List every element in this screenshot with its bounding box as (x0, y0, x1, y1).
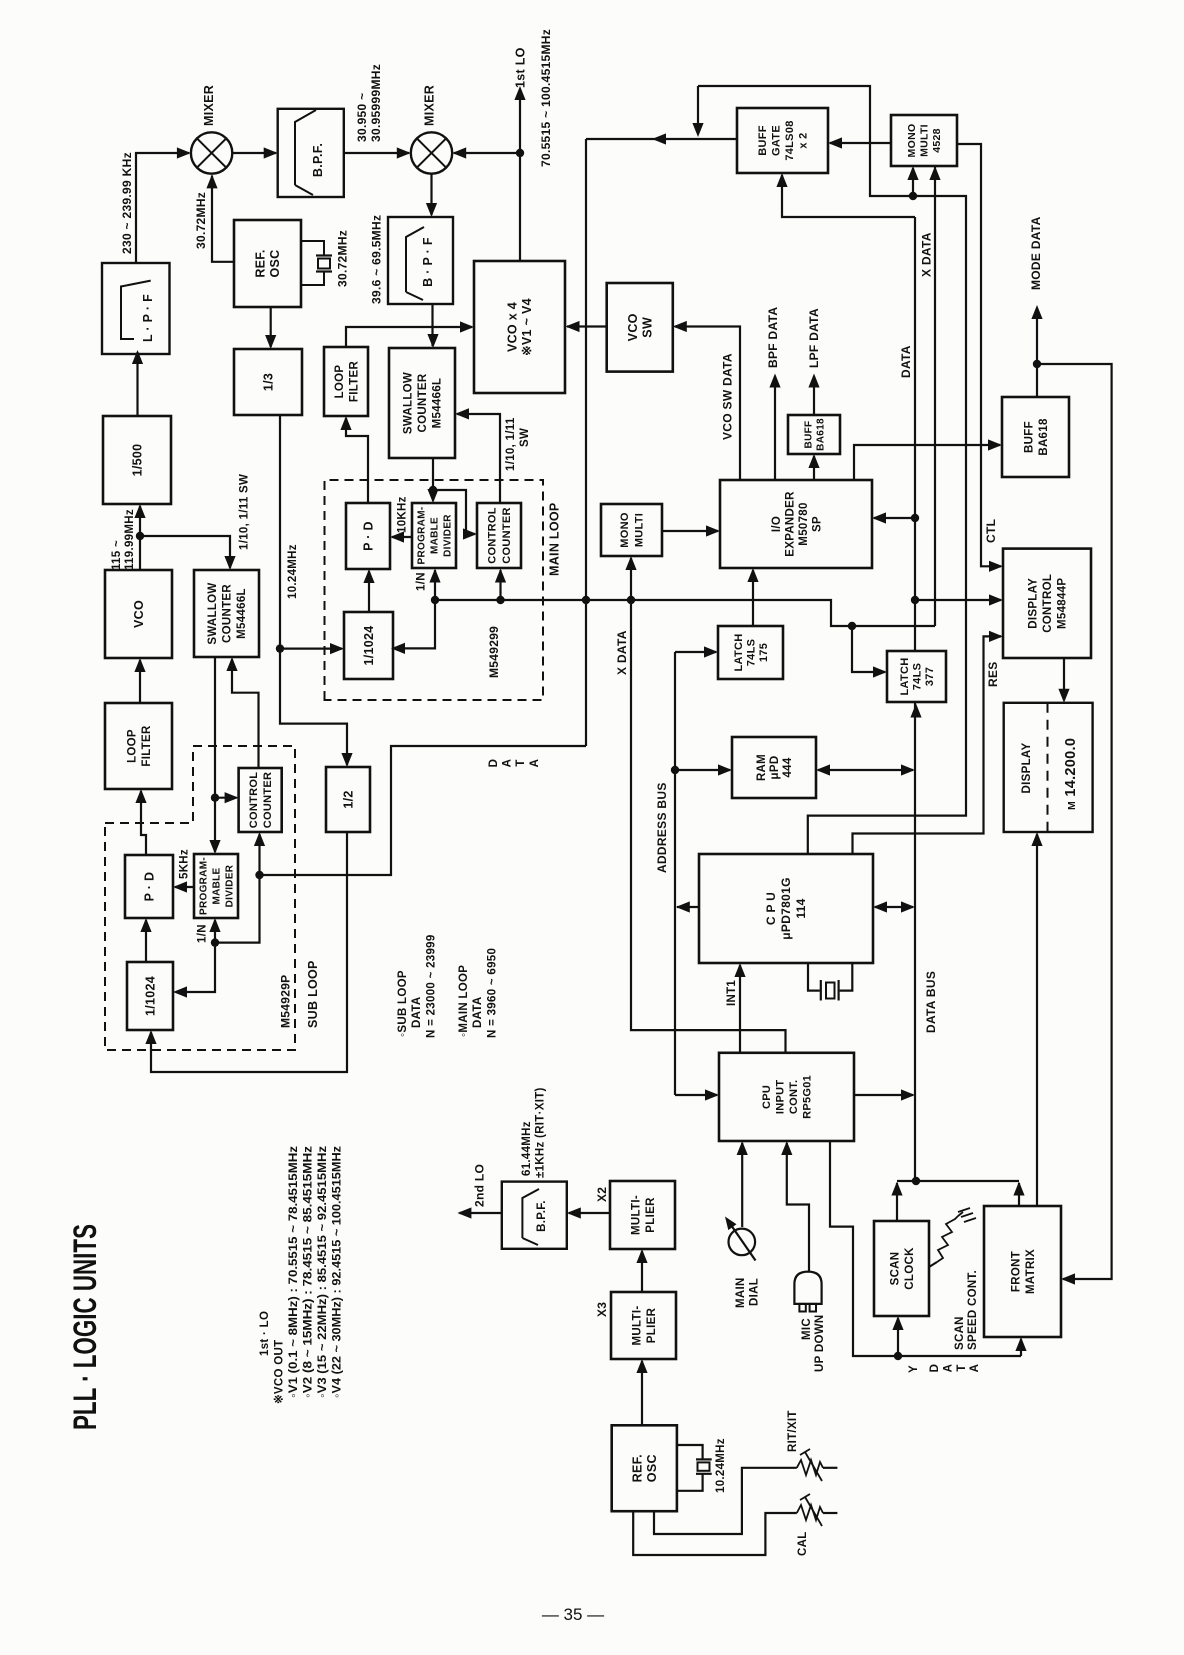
svg-text:μPD: μPD (769, 756, 781, 780)
svg-text:61.44MHz: 61.44MHz (521, 1121, 533, 1176)
junction VCO output (136, 532, 144, 540)
svg-text:◦SUB LOOP: ◦SUB LOOP (397, 970, 409, 1037)
arrow into VCO bottom (134, 658, 145, 672)
crystal X3 (CPU clock) (808, 963, 852, 1001)
filter L.P.F (102, 263, 170, 354)
arrow into DISPLAY CONTROL left (DATA) (989, 594, 1003, 605)
svg-text:SWALLOW: SWALLOW (207, 582, 219, 644)
wire REF.OSC to X3 (641, 1361, 643, 1425)
svg-text:CAL: CAL (797, 1531, 809, 1556)
wire 10.24MHz from 1/3 to main loop and 1/2 (280, 415, 347, 765)
wire CTL from 4528 right (957, 144, 1001, 566)
junction 4528 input node (909, 192, 917, 200)
phase detector P.D (sub) (125, 855, 173, 918)
wire LOOP FILTER to VCO x4 (346, 327, 472, 347)
wire RES from CPU (853, 636, 1002, 854)
svg-text:DIVIDER: DIVIDER (443, 514, 454, 557)
processor CPU uPD7801G 114 (699, 854, 873, 963)
svg-text:VCO: VCO (626, 313, 640, 341)
svg-text:MAIN LOOP: MAIN LOOP (547, 502, 561, 576)
svg-text:4528: 4528 (931, 128, 943, 153)
arrow on BUFF GATE output (mid) (652, 133, 666, 144)
svg-text:2nd LO: 2nd LO (473, 1164, 487, 1207)
svg-text:P · D: P · D (361, 521, 375, 551)
wire 1/1024(main) to P.D(main) (368, 571, 370, 612)
wire VCO SW to VCO x4 (567, 325, 607, 327)
svg-text:X2: X2 (595, 1187, 609, 1202)
arrow CPU side (873, 901, 887, 912)
arrow 2nd LO (457, 1207, 471, 1218)
arrow into 1/2 top (341, 753, 352, 767)
svg-text:1/500: 1/500 (130, 444, 144, 477)
svg-text:LATCH: LATCH (733, 634, 745, 672)
arrow into MONO MULTI 4528 bottom (2) (929, 166, 940, 180)
arrow into CPU INPUT CONT left (705, 1089, 719, 1100)
svg-text:SCAN: SCAN (954, 1316, 966, 1350)
svg-text:±1KHz (RIT·XIT): ±1KHz (RIT·XIT) (535, 1087, 547, 1178)
arrow into 1/1024(main) right (391, 643, 405, 654)
arrow into SCAN CLOCK bottom (892, 1316, 903, 1330)
wire MODE DATA (1037, 364, 1112, 1279)
wire bus from BUFF GATE down to data net (585, 139, 587, 746)
arrow into MULTI X3 bottom (636, 1359, 647, 1373)
svg-text:BA618: BA618 (816, 418, 827, 451)
matrix FRONT MATRIX (984, 1206, 1061, 1337)
buffer BUFF BA618 (mode) (1002, 397, 1069, 477)
svg-text:377: 377 (924, 667, 936, 686)
svg-text:μPD7801G: μPD7801G (779, 877, 793, 939)
svg-text:DISPLAY: DISPLAY (1021, 743, 1033, 794)
oscillator VCO (115MHz) (105, 570, 172, 658)
arrow into 1/500 bottom (134, 504, 145, 518)
svg-text:UP DOWN: UP DOWN (814, 1315, 826, 1372)
controller DISPLAY CONTROL M54844P (1003, 549, 1091, 658)
svg-text:1/N: 1/N (197, 924, 209, 943)
arrow into P.D right (173, 881, 187, 892)
arrow from FRONT MATRIX up (1013, 1182, 1024, 1196)
svg-text:LOOP: LOOP (334, 365, 346, 399)
wire LATCH175 to I/O EXPANDER (752, 570, 754, 626)
arrow into P.D(main) right (390, 531, 404, 542)
multiplier MULTI-PLIER x2 (610, 1181, 675, 1249)
wire DATA to DISPLAY CONTROL (915, 599, 1001, 601)
svg-text:MULTI-: MULTI- (631, 1306, 643, 1346)
svg-text:10.24MHz: 10.24MHz (287, 544, 299, 599)
svg-text:◦V1 (0.1 ~ 8MHz) : 70.5515 ~: ◦V1 (0.1 ~ 8MHz) : 70.5515 ~ 78.4515MHz (288, 1146, 300, 1398)
svg-text:COUNTER: COUNTER (501, 507, 513, 564)
wire CPU to DATA bus (bidirectional) (875, 906, 913, 908)
arrow into VCO x4 left (460, 321, 474, 332)
wire Y DATA from CPU INPUT CONT (830, 1141, 1021, 1356)
svg-text:114: 114 (794, 898, 808, 918)
arrow into B.P.F left (264, 147, 278, 158)
svg-text:RES: RES (986, 661, 1000, 687)
svg-text:1/3: 1/3 (261, 373, 275, 391)
svg-text:DISPLAY: DISPLAY (1028, 578, 1040, 629)
arrow into DISPLAY bottom (1031, 832, 1042, 846)
svg-text:175: 175 (758, 643, 770, 662)
wire SWALLOW(main) to PROG DIVIDER/CONTROL COUNTER (432, 458, 434, 501)
wire 4528 input stub (912, 168, 914, 196)
svg-text:MONO: MONO (619, 512, 631, 548)
multiplier MULTI-PLIER x3 (611, 1292, 676, 1359)
svg-text:COUNTER: COUNTER (262, 772, 274, 829)
arrow into CONTROL COUNTER(main) bottom (495, 569, 506, 583)
svg-text:ADDRESS BUS: ADDRESS BUS (655, 782, 669, 873)
svg-text:OSC: OSC (645, 1454, 659, 1482)
svg-text:T: T (515, 759, 527, 766)
arrow into I/O EXPANDER left (706, 525, 720, 536)
wire B.P.F to MIXER2 (344, 152, 409, 154)
svg-text:444: 444 (782, 757, 794, 777)
svg-text:x 2: x 2 (798, 132, 810, 148)
arrow into BUFF BA618(right) left (988, 439, 1002, 450)
wire 1/2 to 1/1024(sub) (151, 832, 347, 1072)
arrow RAM side (816, 764, 830, 775)
arrow into SWALLOW(sub) bottom (226, 657, 237, 671)
arrow into LATCH175 left (704, 646, 718, 657)
svg-text:SW: SW (519, 428, 531, 447)
svg-text:MIXER: MIXER (422, 85, 436, 126)
dashed boundary MAIN LOOP M549299 (325, 480, 544, 700)
wire BUFF GATE output left (586, 138, 737, 140)
clock SCAN CLOCK (874, 1221, 929, 1316)
junction address bus to RAM (671, 766, 679, 774)
svg-text:LATCH: LATCH (899, 658, 911, 696)
wire ADDRESS BUS (674, 652, 676, 1095)
arrow into FRONT MATRIX bottom (1015, 1337, 1026, 1351)
buffer BUFF GATE 74LS08 x2 (737, 108, 828, 173)
arrow LPF DATA (808, 374, 819, 388)
wire branch to CONTROL COUNTER(main) left (433, 490, 475, 534)
svg-text:X DATA: X DATA (920, 232, 934, 277)
svg-text:BPF DATA: BPF DATA (766, 307, 780, 368)
svg-text:1/10, 1/11: 1/10, 1/11 (505, 417, 517, 471)
wire DATA line to sub loop (260, 746, 587, 875)
svg-text:1/1024: 1/1024 (362, 625, 376, 665)
arrow into CONTROL COUNTER(main) left (463, 528, 477, 539)
arrow into P.D(sub) bottom (140, 918, 151, 932)
wire PROG DIVIDER to P.D 10KHz (392, 536, 412, 538)
svg-text:◦V2 (8 ~ 15MHz) : 78.4515 ~: ◦V2 (8 ~ 15MHz) : 78.4515 ~ 85.4515MHz (303, 1146, 315, 1398)
wire top loop from 4528 junction (698, 86, 911, 196)
wire 1/1024 to P.D (sub) (145, 920, 147, 962)
arrow MODE DATA (1031, 305, 1042, 319)
wire L.P.F to MIXER1 (136, 153, 189, 263)
counter CONTROL COUNTER (main) (477, 503, 521, 568)
svg-text:VCO SW DATA: VCO SW DATA (721, 353, 735, 440)
arrow dial into CPU INPUT CONT (737, 1141, 748, 1155)
svg-text:INPUT: INPUT (775, 1080, 787, 1115)
svg-text:MULTI-: MULTI- (630, 1195, 642, 1235)
filter LOOP FILTER (sub) (105, 703, 172, 789)
divider 1/1024 (main) (344, 612, 393, 679)
divider 1/3 (234, 349, 302, 415)
svg-text:BUFF: BUFF (757, 125, 769, 156)
wire MONO MULTI 4528 to BUFF GATE (830, 142, 891, 144)
wire LPF DATA (813, 376, 815, 415)
svg-text:B · P · F: B · P · F (421, 237, 435, 287)
wire I/O EXPANDER to BUFF BA618 (CTL) (854, 445, 1000, 480)
wire SWALLOW(sub) to CONTROL COUNTER / PROG DIVIDER (214, 657, 216, 852)
svg-text:RP5G01: RP5G01 (802, 1075, 814, 1119)
wire down into output line (697, 86, 699, 126)
arrow into B.P.F(39.6) top (426, 203, 437, 217)
arrow into B.P.F(2ndLO) right (567, 1207, 581, 1218)
switch VCO SW (607, 283, 673, 372)
svg-text:SWALLOW: SWALLOW (403, 372, 415, 434)
wire X2 to B.P.F (569, 1212, 610, 1214)
svg-text:REF.: REF. (254, 249, 268, 277)
svg-text:MONO: MONO (906, 124, 918, 158)
svg-text:PLIER: PLIER (645, 1197, 657, 1233)
counter CONTROL COUNTER (sub) (239, 768, 282, 832)
arrow into MIXER1 left (177, 147, 191, 158)
wire X3 to X2 (641, 1251, 643, 1292)
wire 1/500 to L.P.F (136, 352, 138, 416)
wire FRONT MATRIX to DISPLAY (1036, 834, 1038, 1206)
junction main swallow output (429, 486, 437, 494)
svg-text:30.95999MHz: 30.95999MHz (369, 64, 383, 142)
arrow into BUFF GATE bottom (776, 173, 787, 187)
wire keyboard return line (897, 1180, 1019, 1182)
mixer MIXER2 (411, 132, 452, 173)
svg-text:BUFF: BUFF (1023, 421, 1035, 453)
svg-text:DATA: DATA (899, 345, 913, 378)
svg-text:DATA: DATA (411, 997, 423, 1028)
svg-text:INT1: INT1 (726, 980, 738, 1006)
svg-text:M54466L: M54466L (236, 588, 248, 639)
svg-text:CONT.: CONT. (788, 1080, 800, 1115)
svg-text:M 14.200.0: M 14.200.0 (1063, 738, 1079, 810)
display DISPLAY with readout (1004, 703, 1093, 832)
svg-text:VCO x 4: VCO x 4 (506, 302, 520, 352)
svg-text:I/O: I/O (771, 516, 783, 532)
wire address bus to CPU INPUT CONT (675, 1094, 717, 1096)
svg-text:MODE DATA: MODE DATA (1029, 216, 1043, 290)
svg-text:B.P.F.: B.P.F. (536, 1200, 548, 1232)
divider PROGRAMMABLE DIVIDER (sub) (194, 854, 238, 918)
svg-text:DATA: DATA (472, 997, 484, 1028)
svg-text:MATRIX: MATRIX (1025, 1249, 1037, 1294)
wire 4528 node to CPU top (808, 196, 966, 854)
wire REF.OSC to MIXER1 (212, 176, 234, 262)
wire VCO SW DATA (675, 327, 740, 481)
mixer MIXER1 (191, 132, 232, 173)
arrow MIC into CPU INPUT CONT (781, 1141, 792, 1155)
svg-text:RAM: RAM (756, 754, 768, 781)
svg-text:1st · LO: 1st · LO (259, 1311, 271, 1356)
memory RAM uPD 444 (732, 737, 816, 798)
svg-text:10.24MHz: 10.24MHz (715, 1438, 727, 1493)
arrow into BUFF GATE right (828, 137, 842, 148)
arrow into DISPLAY CONTROL left (CTL) (989, 561, 1003, 572)
arrow into MIXER1 bottom (206, 174, 217, 188)
svg-text:30.72MHz: 30.72MHz (194, 192, 208, 249)
svg-text:74LS08: 74LS08 (784, 120, 796, 160)
svg-text:※VCO OUT: ※VCO OUT (273, 1340, 286, 1404)
wire VCO to 1/500 and SWALLOW (140, 536, 230, 570)
junction DATA bus at y600 (911, 596, 919, 604)
arrow into DATA bus (901, 1089, 915, 1100)
arrow 1st LO (514, 86, 525, 100)
svg-text:CPU: CPU (761, 1085, 773, 1109)
arrow into BUFF BA618 bottom (808, 454, 819, 468)
svg-text:B.P.F.: B.P.F. (311, 143, 325, 177)
svg-text:A: A (942, 1364, 954, 1373)
potentiometer SCAN SPEED CONT (929, 1208, 976, 1267)
svg-text:CONTROL: CONTROL (248, 772, 260, 828)
wire VCO x4 top to MIXER2 and 1st LO (454, 153, 520, 261)
arrow into P.D(main) bottom (363, 569, 374, 583)
svg-text:SUB LOOP: SUB LOOP (306, 960, 320, 1028)
wire LOOP FILTER(sub) to VCO (139, 660, 141, 703)
svg-text:X3: X3 (595, 1302, 609, 1317)
crystal X1 30.72MHz (301, 241, 332, 285)
oscillator VCO x4 (474, 261, 565, 393)
arrow into 1/1024(main) left (330, 643, 344, 654)
svg-text:SW: SW (640, 317, 654, 338)
wire branch to 1/1024(main) left (280, 647, 342, 649)
divider 1/1024 (sub) (127, 962, 173, 1030)
svg-text:SP: SP (811, 516, 823, 532)
oscillator REF.OSC (30.72MHz) (234, 220, 301, 307)
arrow into CONTROL COUNTER(sub) left (225, 792, 239, 803)
svg-text:N = 23000 ~ 23999: N = 23000 ~ 23999 (426, 934, 438, 1038)
filter LOOP FILTER (main) (324, 347, 368, 416)
expander I/O EXPANDER M50780 SP (720, 480, 872, 568)
monostable MONO MULTI 4528 (891, 115, 957, 166)
filter B.P.F (2nd LO) (502, 1182, 567, 1249)
svg-text:MULTI: MULTI (919, 124, 931, 157)
svg-text:74LS: 74LS (745, 639, 757, 667)
svg-text:COUNTER: COUNTER (417, 373, 429, 432)
svg-text:MIXER: MIXER (202, 85, 216, 126)
wire y600 X DATA distribution line (435, 600, 935, 626)
net main-loop 1/N data line (393, 602, 435, 648)
svg-text:CLOCK: CLOCK (904, 1247, 916, 1290)
arrow into MULTI X2 bottom (636, 1249, 647, 1263)
svg-text:M50780: M50780 (798, 502, 810, 545)
arrow into L.P.F bottom (132, 350, 143, 364)
arrow into VCO x4 right (566, 321, 580, 332)
arrow into SWALLOW COUNTER top (427, 334, 438, 348)
svg-text:115 ~: 115 ~ (111, 540, 123, 570)
counter SWALLOW COUNTER M54466L (main) (389, 348, 455, 458)
svg-text:1/2: 1/2 (341, 790, 355, 808)
wire CPU to address bus (677, 906, 699, 908)
svg-text:◦V4 (22 ~ 30MHz) : 92.4515 ~ 1: ◦V4 (22 ~ 30MHz) : 92.4515 ~ 100.4515MHz (332, 1146, 344, 1398)
svg-text:119.99MHz: 119.99MHz (124, 509, 136, 570)
trimmer CAL (633, 1494, 837, 1555)
oscillator REF.OSC (10.24MHz) (612, 1425, 677, 1511)
phase detector P.D (main) (346, 503, 390, 569)
svg-text:LOOP: LOOP (126, 729, 138, 763)
svg-text:VCO: VCO (132, 600, 146, 628)
wire RAM to DATA bus (bidirectional) (818, 769, 913, 771)
arrow CPU to address bus (676, 901, 690, 912)
connector MIC plug (794, 1272, 821, 1312)
wire MIXER1 to B.P.F (232, 152, 276, 154)
svg-text:30.72MHz: 30.72MHz (336, 230, 350, 287)
junction DATA bus to I/O EXPANDER (911, 514, 919, 522)
svg-text:SPEED CONT.: SPEED CONT. (967, 1270, 979, 1350)
svg-text:39.6 ~ 69.5MHz: 39.6 ~ 69.5MHz (370, 215, 384, 304)
wire DISPLAY CONTROL to DISPLAY (1063, 658, 1065, 700)
arrow into FRONT MATRIX right (1061, 1273, 1075, 1284)
svg-text:10KHz: 10KHz (397, 496, 409, 533)
wire X DATA up to MONO MULTI (630, 558, 632, 600)
svg-text:MABLE: MABLE (430, 517, 441, 554)
controller CPU INPUT CONT. RP5G01 (719, 1053, 854, 1141)
arrow into CONTROL COUNTER(sub) bottom (254, 832, 265, 846)
wire 1/10 1/11 SW control (457, 414, 500, 503)
wire MIC to CPU INPUT CONT (787, 1143, 809, 1272)
monostable MONO MULTI (left) (601, 504, 662, 556)
arrow bus side (CPU) (901, 901, 915, 912)
wire branch to LATCH 377 left (852, 626, 885, 672)
svg-text:74LS: 74LS (911, 663, 923, 691)
svg-text:MIC: MIC (801, 1318, 813, 1340)
svg-text:M54844P: M54844P (1057, 578, 1069, 629)
svg-text:PROGRAM-: PROGRAM- (417, 507, 428, 565)
wire BUFF GATE bottom feed (782, 175, 915, 217)
svg-text:PLL · LOGIC UNITS: PLL · LOGIC UNITS (67, 1224, 103, 1430)
arrow into DISPLAY CONTROL left (RES) (989, 631, 1003, 642)
filter B.P.F (30MHz) (278, 109, 344, 197)
svg-text:GATE: GATE (771, 125, 783, 156)
arrow into 1/3 top (265, 335, 276, 349)
svg-text:1st LO: 1st LO (513, 47, 527, 88)
svg-text:A: A (529, 759, 541, 768)
divider PROGRAMMABLE DIVIDER (main) (412, 503, 456, 568)
arrow into 1/1024(sub) bottom (145, 1030, 156, 1044)
arrow bus side (RAM) (901, 764, 915, 775)
arrow into PROG DIVIDER(sub) bottom 1/N (209, 918, 220, 932)
svg-text:LPF DATA: LPF DATA (807, 308, 821, 368)
junction sub swallow output (211, 794, 219, 802)
wire X DATA bus from 4528 (934, 166, 936, 626)
svg-text:M549299: M549299 (487, 626, 501, 678)
svg-text:P · D: P · D (142, 872, 156, 902)
svg-text:X DATA: X DATA (615, 630, 629, 675)
wire INT1 (739, 965, 741, 1053)
svg-text:CTL: CTL (984, 519, 998, 543)
wire MIXER2 to B.P.F(39.6) (430, 174, 432, 215)
svg-text:M54466L: M54466L (432, 378, 444, 429)
svg-text:MAIN: MAIN (735, 1277, 747, 1308)
divider 1/2 (326, 767, 370, 832)
wire X DATA down to CPU INPUT CONT (631, 600, 786, 1053)
arrow into 1/1024(sub) right (173, 986, 187, 997)
svg-text:N = 3960 ~ 6950: N = 3960 ~ 6950 (487, 948, 499, 1038)
latch LATCH 74LS 175 (718, 626, 783, 679)
arrow INT1 into CPU bottom (734, 963, 745, 977)
wire B.P.F(39.6) to SWALLOW COUNTER (431, 304, 433, 346)
wire dial to CPU INPUT CONT (741, 1143, 743, 1227)
svg-text:FILTER: FILTER (141, 725, 153, 767)
svg-text:COUNTER: COUNTER (222, 584, 234, 643)
arrow into I/O EXPANDER right (872, 512, 886, 523)
svg-text:DIAL: DIAL (749, 1278, 761, 1306)
svg-text:FRONT: FRONT (1010, 1251, 1022, 1292)
arrow into PROG DIVIDER(main) top (427, 489, 438, 503)
arrow into LOOP FILTER(sub) bottom (135, 789, 146, 803)
svg-text:EXPANDER: EXPANDER (784, 491, 796, 557)
svg-text:30.950 ~: 30.950 ~ (355, 93, 369, 142)
svg-text:D: D (488, 759, 500, 768)
wire PROG DIVIDER to P.D 5KHz (175, 886, 194, 888)
